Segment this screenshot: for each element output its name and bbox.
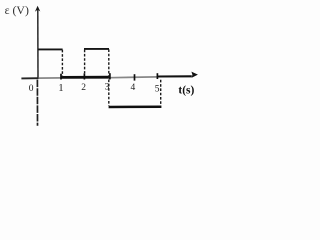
pulse top 2 to 3	[84, 48, 109, 50]
dashed rise at t=2	[84, 50, 86, 74]
x-axis thin segment 3 to 5	[110, 76, 157, 79]
svg-text:5: 5	[155, 85, 160, 95]
svg-text:2: 2	[81, 83, 86, 93]
x-axis thin segment 0 to 1	[39, 77, 62, 79]
dashed fall at t=1	[61, 50, 63, 77]
svg-text:3: 3	[105, 82, 110, 92]
x-axis segment left of origin	[21, 77, 38, 79]
y-axis lower dotted extension	[36, 80, 38, 126]
tick t=1	[60, 74, 62, 80]
dashed fall at t=3	[108, 49, 110, 105]
tick t=4	[134, 74, 136, 80]
negative level 3 to 5	[109, 106, 162, 109]
svg-text:1: 1	[58, 82, 63, 94]
pulse top 0 to 1	[38, 48, 63, 50]
svg-text:4: 4	[131, 83, 136, 93]
x-axis thick segment right of 5	[157, 75, 192, 77]
svg-text:ε (V): ε (V)	[5, 3, 29, 17]
x-axis arrowhead	[191, 72, 198, 78]
y-axis arrowhead	[35, 6, 40, 12]
y-axis line	[37, 10, 39, 78]
x-axis thick zero-level segment 1 to 3	[61, 76, 110, 79]
tick t=3	[109, 73, 111, 79]
tick t=5	[156, 73, 158, 79]
svg-text:0: 0	[29, 84, 34, 94]
dashed rise at t=5	[160, 80, 162, 106]
tick t=2	[83, 73, 85, 79]
svg-text:t(s): t(s)	[178, 84, 194, 96]
